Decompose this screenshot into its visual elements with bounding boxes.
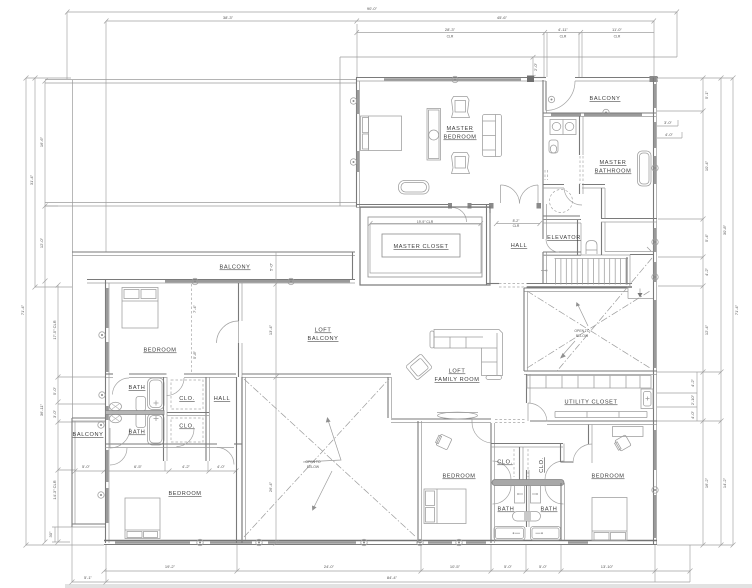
svg-text:5'-0": 5'-0"	[82, 464, 91, 469]
bottom-center bedroom east wall	[490, 423, 492, 543]
master chair top	[452, 97, 470, 118]
svg-text:5'-1": 5'-1"	[704, 90, 709, 99]
svg-text:4'-0": 4'-0"	[665, 132, 674, 137]
svg-text:UTILITY CLOSET: UTILITY CLOSET	[564, 400, 617, 406]
left dimension line 71'-4"	[20, 76, 104, 548]
window markers	[98, 76, 658, 545]
svg-text:BEDROOM: BEDROOM	[143, 348, 176, 354]
master bed	[361, 116, 402, 151]
wc toilet	[549, 140, 558, 153]
svg-text:LOFT: LOFT	[449, 369, 466, 375]
top dimension line 38'-3"	[104, 15, 359, 252]
svg-text:BEDROOM: BEDROOM	[442, 474, 475, 480]
closet interiors dashed	[171, 380, 203, 409]
svg-text:5'-0": 5'-0"	[504, 564, 513, 569]
dashed door at wc	[544, 170, 546, 180]
svg-text:BELOW: BELOW	[307, 465, 320, 469]
east wall	[653, 78, 655, 546]
west upper wall	[72, 80, 74, 418]
svg-text:MASTER: MASTER	[600, 160, 627, 166]
svg-text:4'-0": 4'-0"	[217, 464, 226, 469]
svg-text:8'-2": 8'-2"	[513, 219, 521, 223]
svg-text:5'-0": 5'-0"	[52, 386, 57, 395]
svg-text:CLR: CLR	[560, 35, 567, 39]
south wall main	[104, 540, 657, 542]
top dimension line 90'-0"	[65, 6, 679, 79]
svg-text:BATH: BATH	[541, 507, 558, 513]
svg-text:BATH: BATH	[129, 385, 146, 391]
sinks bottom center	[513, 512, 541, 522]
svg-text:2'-10": 2'-10"	[690, 394, 695, 405]
svg-text:12'-4": 12'-4"	[704, 324, 709, 335]
open to below arrows well1	[303, 420, 341, 462]
svg-text:45'-6": 45'-6"	[497, 15, 508, 20]
svg-text:17'-5" CLR: 17'-5" CLR	[52, 320, 57, 339]
svg-text:HALL: HALL	[214, 396, 230, 402]
svg-text:10'-4": 10'-4"	[704, 160, 709, 171]
svg-text:5'-8": 5'-8"	[192, 350, 197, 359]
wc / master bath inner walls	[579, 116, 581, 155]
svg-text:3'-0": 3'-0"	[664, 120, 673, 125]
svg-text:28'-3": 28'-3"	[445, 27, 456, 32]
svg-text:3'-0": 3'-0"	[52, 409, 57, 418]
svg-text:CLO.: CLO.	[179, 424, 194, 430]
bedroom2 chair	[435, 433, 452, 450]
master cabinet	[427, 109, 441, 161]
south wall of hall/stairs w dashed opening	[486, 205, 488, 285]
svg-text:4'-0": 4'-0"	[690, 410, 695, 419]
svg-text:19'-9" CLR: 19'-9" CLR	[417, 220, 434, 224]
right small dims utility	[657, 372, 697, 421]
master closet label box	[382, 234, 460, 257]
mid-left bedroom dims	[191, 284, 193, 374]
east desk and chair	[613, 427, 644, 437]
svg-text:5'-0": 5'-0"	[269, 262, 274, 271]
hall clear dim line	[496, 223, 540, 225]
top dimension 11'-0" CLR	[581, 27, 654, 39]
svg-text:71'-4": 71'-4"	[20, 304, 25, 315]
elevator room	[543, 219, 581, 221]
svg-text:BALCONY: BALCONY	[590, 96, 621, 102]
open to below arrows well2	[577, 303, 588, 326]
svg-text:FAMILY ROOM: FAMILY ROOM	[435, 377, 480, 383]
stair landing walls	[630, 254, 653, 256]
water heater	[641, 389, 653, 409]
closet door arc	[452, 208, 467, 223]
svg-text:24'-0": 24'-0"	[324, 564, 335, 569]
vestibule wall and bedroom door	[588, 425, 590, 445]
svg-text:5'-1": 5'-1"	[84, 575, 93, 580]
svg-text:19'-2": 19'-2"	[165, 564, 176, 569]
svg-text:90'-0": 90'-0"	[367, 6, 378, 11]
bath block walls	[163, 377, 165, 461]
svg-text:4'-2": 4'-2"	[704, 267, 709, 276]
right dimension line col 1	[657, 76, 733, 548]
toilets bottom center	[515, 486, 525, 504]
svg-text:BATH: BATH	[498, 507, 515, 513]
svg-text:5'-4": 5'-4"	[704, 233, 709, 242]
svg-text:13'-10": 13'-10"	[601, 564, 614, 569]
master bedroom west wall	[356, 78, 358, 208]
roof eave lines left	[45, 202, 356, 204]
bottom dimension row 1	[102, 544, 693, 582]
svg-text:14'-3" CLR: 14'-3" CLR	[52, 480, 57, 499]
wall column between hall and open well	[236, 377, 238, 543]
svg-text:6'-5": 6'-5"	[134, 464, 143, 469]
master suite south wall	[356, 204, 451, 206]
left dimension line 31'-4"	[29, 76, 72, 290]
svg-text:CLR: CLR	[614, 35, 621, 39]
closet clear dim line	[370, 223, 481, 225]
wall right of shower	[601, 188, 603, 219]
bottom dimension row 2	[70, 527, 691, 585]
svg-text:14'-2": 14'-2"	[722, 477, 727, 488]
svg-text:BEDROOM: BEDROOM	[168, 491, 201, 497]
svg-text:71'-4": 71'-4"	[734, 304, 739, 315]
loft armchair	[406, 354, 433, 381]
top dimension line 45'-6"	[357, 15, 656, 77]
toilet beside elevator	[586, 241, 597, 255]
svg-text:7'-4": 7'-4"	[192, 304, 197, 313]
top dimension line 28'-3" CLR	[355, 24, 548, 77]
open well 2	[524, 287, 628, 289]
wall under loft family room	[391, 418, 491, 420]
west balcony	[72, 417, 105, 419]
master closet walls	[360, 207, 490, 285]
shower	[550, 190, 573, 213]
right small dims master bath	[657, 120, 682, 138]
closet walls bottom center	[491, 443, 563, 445]
master tub	[638, 151, 652, 186]
svg-text:BELOW: BELOW	[576, 334, 589, 338]
bath east wall bottom center	[560, 444, 562, 463]
svg-text:BATH: BATH	[129, 430, 146, 436]
right dimension line col 3	[731, 76, 740, 548]
svg-text:LOFT: LOFT	[315, 328, 332, 334]
svg-text:84'-4": 84'-4"	[387, 575, 398, 580]
left bottom 3'-0" bracket	[48, 527, 72, 542]
svg-text:12'-0": 12'-0"	[39, 237, 44, 248]
svg-text:4'-11": 4'-11"	[558, 27, 568, 32]
mid-left bedroom east wall	[238, 283, 240, 321]
svg-text:CLR: CLR	[513, 224, 520, 228]
east bed	[592, 498, 627, 541]
svg-text:16'-6": 16'-6"	[39, 136, 44, 147]
landing room right of elevator	[601, 222, 603, 255]
utility closet	[524, 370, 657, 372]
svg-text:ELEVATOR: ELEVATOR	[547, 235, 581, 241]
svg-text:11'-0": 11'-0"	[612, 27, 622, 32]
svg-text:2'-0": 2'-0"	[533, 62, 538, 71]
svg-text:OPEN TO: OPEN TO	[574, 329, 589, 333]
balcony door	[545, 81, 547, 110]
clo lower door arc	[177, 429, 195, 447]
svg-text:BALCONY: BALCONY	[220, 265, 251, 271]
hall south door	[217, 448, 234, 465]
right dimension line col 2	[719, 76, 728, 548]
balcony south wall (upper right)	[543, 112, 656, 114]
post at balcony door	[527, 76, 534, 83]
bottom-center bedroom west wall	[417, 421, 419, 543]
bedroom1 entry door	[472, 422, 491, 443]
bedroom3 door from balcony	[110, 448, 127, 465]
svg-text:5'-0": 5'-0"	[539, 564, 548, 569]
svg-text:30'-8": 30'-8"	[722, 224, 727, 235]
svg-text:30": 30"	[48, 531, 53, 537]
utility counter	[555, 411, 647, 413]
north wall west wing (roof edge)	[45, 79, 356, 81]
svg-text:36'-11": 36'-11"	[39, 403, 44, 416]
master bench	[399, 181, 430, 195]
lower bath fixtures	[148, 414, 165, 446]
master chair bottom	[452, 153, 470, 174]
interior dim row above bottom bedroom	[73, 464, 239, 474]
balcony door to bath	[110, 428, 130, 448]
svg-text:MASTER CLOSET: MASTER CLOSET	[393, 244, 448, 250]
page shadow bottom	[65, 584, 752, 588]
svg-text:16'-2": 16'-2"	[704, 477, 709, 488]
master bedroom north wall	[356, 77, 527, 79]
stairs	[543, 255, 630, 285]
svg-text:BALCONY: BALCONY	[308, 336, 339, 342]
svg-text:4'-2": 4'-2"	[182, 464, 191, 469]
hall east wall	[542, 80, 544, 239]
balcony north wall	[534, 77, 546, 79]
console table on wall	[438, 412, 478, 419]
svg-text:BEDROOM: BEDROOM	[443, 135, 476, 141]
svg-text:BATHROOM: BATHROOM	[595, 169, 632, 175]
svg-text:BEDROOM: BEDROOM	[591, 474, 624, 480]
svg-text:OPEN TO: OPEN TO	[305, 460, 320, 464]
mid-left bedroom bed	[122, 288, 158, 329]
hall double doors	[500, 185, 502, 203]
utility shelves	[527, 376, 651, 389]
svg-text:4'-2": 4'-2"	[690, 378, 695, 387]
svg-text:10'-5": 10'-5"	[450, 564, 461, 569]
stair down arrow	[639, 289, 641, 297]
closet rods dashed bottom center	[513, 449, 515, 477]
svg-text:CLO.: CLO.	[179, 396, 194, 402]
svg-text:CLR: CLR	[447, 35, 454, 39]
top dimension 4'-11" CLR	[545, 27, 583, 77]
svg-text:BALCONY: BALCONY	[73, 432, 104, 438]
svg-text:31'-4": 31'-4"	[29, 174, 34, 185]
left inner dimension line CLR	[52, 283, 106, 545]
master sofa	[483, 115, 502, 157]
tubs bottom center	[494, 527, 525, 541]
roof outline upper	[340, 57, 677, 206]
svg-text:CLO.: CLO.	[539, 457, 545, 472]
vanity with two sinks	[550, 120, 576, 135]
left dimension line 16'-6" / 12'-0" / 36'-11"	[39, 79, 58, 545]
svg-text:HALL: HALL	[511, 243, 527, 249]
svg-text:38'-3": 38'-3"	[223, 15, 234, 20]
svg-text:13'-4": 13'-4"	[268, 324, 273, 335]
svg-text:MASTER: MASTER	[447, 126, 474, 132]
loft balcony dim	[275, 252, 277, 543]
dim 2'-0" at roof edge	[531, 55, 539, 80]
east bedroom north wall	[530, 420, 657, 422]
bottom-center bed	[424, 489, 466, 524]
upper bath fixtures	[148, 378, 165, 410]
svg-text:CLO.: CLO.	[497, 460, 512, 466]
west wall lower wing	[105, 280, 107, 544]
open well 1 top wall	[242, 373, 391, 375]
open well 1	[241, 377, 243, 540]
bottom-left bed	[125, 498, 160, 539]
balcony NE corner post	[650, 76, 658, 82]
balcony strip (upper left)	[72, 251, 355, 253]
loft sofa sectional	[434, 330, 503, 376]
svg-text:26'-4": 26'-4"	[268, 481, 273, 492]
bedroom south wall / bath north	[106, 373, 113, 375]
